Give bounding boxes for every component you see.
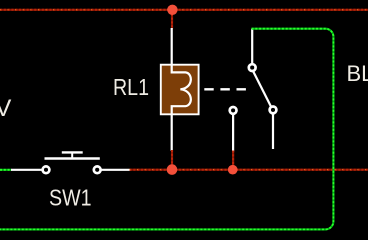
switch SW1 actuator stem bbox=[71, 152, 73, 158]
wire: top +V rail (red, animated dots) bbox=[0, 9, 368, 11]
wire: green ground loop (top, right, bottom) bbox=[0, 29, 333, 230]
wire: white wire from switch right pin bbox=[101, 169, 131, 171]
switch SW1 actuator cap bbox=[62, 151, 83, 153]
wire: green stub at left edge bbox=[0, 169, 12, 171]
node: junction dot left (relay coil bottom) bbox=[167, 164, 178, 175]
relay contact left throw terminal circle bbox=[230, 107, 237, 114]
relay contact right throw terminal circle bbox=[270, 107, 277, 114]
relay RL1 body bbox=[161, 65, 199, 115]
switch SW1 right terminal circle bbox=[94, 166, 101, 173]
relay contact arm bbox=[253, 71, 271, 107]
wire: left throw pin white bbox=[232, 114, 234, 152]
wire: white pin from relay coil bottom bbox=[171, 114, 173, 152]
switch SW1 left terminal circle bbox=[43, 166, 50, 173]
relay contact pole terminal circle bbox=[249, 64, 256, 71]
svg-text:V: V bbox=[0, 95, 12, 122]
dashed mechanical link relay coil to contact bbox=[204, 88, 247, 90]
relay RL1 coil symbol bbox=[172, 65, 191, 114]
wire: white wire green stub to switch left pin bbox=[11, 169, 43, 171]
wire: red segment relay bottom pin to junction bbox=[171, 150, 173, 167]
wire: contact pole pin (white) bbox=[251, 29, 253, 64]
svg-text:RL1: RL1 bbox=[113, 74, 149, 100]
wire: bottom red rail from switch to right edge bbox=[130, 169, 368, 171]
node: junction dot right (contact throw) bbox=[228, 165, 238, 175]
svg-text:SW1: SW1 bbox=[49, 185, 92, 211]
svg-text:BL1: BL1 bbox=[347, 61, 368, 86]
node: top junction dot bbox=[167, 5, 177, 15]
wire: right throw pin white (floating) bbox=[272, 113, 274, 149]
wire: white pin from junction to relay coil top bbox=[171, 28, 173, 65]
switch SW1 contact bar bbox=[45, 157, 100, 160]
wire: left throw red segment to junction bbox=[232, 151, 234, 168]
wire: red stub from top junction down to relay pin bbox=[171, 10, 173, 29]
